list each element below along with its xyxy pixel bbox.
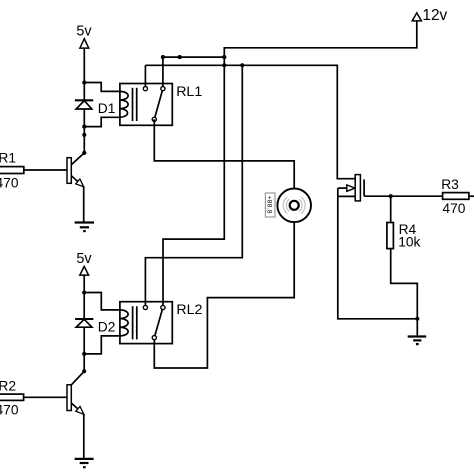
svg-text:12v: 12v — [422, 7, 447, 24]
relay RL2 box — [120, 302, 172, 344]
node collector junction — [82, 151, 86, 155]
svg-text:D1: D1 — [98, 101, 116, 116]
mosfet Q3 body stub arrow — [338, 187, 347, 189]
node coil-bypass junction — [82, 125, 86, 129]
wire net C branch down to RL2 NC — [145, 65, 242, 307]
diode D2 cathode bar — [75, 318, 93, 320]
relay RL1 switch blade — [154, 89, 163, 120]
wire RL1 NC contact up — [144, 65, 146, 88]
relay RL1 contact pin common — [152, 117, 156, 121]
wire net C to mosfet drain — [145, 65, 355, 178]
svg-text:5v: 5v — [76, 23, 92, 39]
svg-text:470: 470 — [442, 201, 465, 216]
node source-ground junction — [415, 317, 419, 321]
power 12V arrow — [412, 13, 421, 21]
transistor Q2 emitter — [71, 403, 84, 414]
svg-text:10k: 10k — [398, 234, 420, 249]
wire 5v to D2 cathode — [83, 275, 85, 319]
resistor R1 body — [0, 167, 24, 174]
wire RL2 coil bottom to rail — [84, 336, 120, 354]
node collector2 junction — [82, 369, 86, 373]
relay RL2 contact pin common — [152, 336, 156, 340]
mosfet Q3 gate electrode — [363, 179, 365, 196]
relay RL1 box — [120, 84, 172, 126]
node C1 — [222, 63, 226, 67]
svg-text:470: 470 — [0, 402, 19, 417]
relay RL2 contact pin left — [143, 305, 147, 309]
transistor Q2 base bar — [67, 385, 71, 411]
wire D1 anode down — [83, 109, 85, 153]
node gate divider — [389, 194, 393, 198]
resistor R3 body — [443, 193, 469, 200]
svg-text:5v: 5v — [76, 251, 92, 267]
svg-text:R2: R2 — [0, 378, 16, 393]
svg-text:R1: R1 — [0, 151, 16, 166]
node coil2-bypass junction — [82, 352, 86, 356]
relay RL1 core — [132, 88, 134, 121]
wire 5v to D1 cathode — [83, 48, 85, 100]
wire branch to RL2 coil top — [84, 293, 120, 310]
wire RL1 coil bottom to main rail — [84, 117, 120, 126]
relay RL2 core — [132, 306, 134, 339]
wire motor bottom to RL2 common — [154, 222, 294, 368]
wire R2 to Q2 base — [24, 396, 67, 398]
wire R4 to ground — [391, 249, 418, 337]
relay RL2 contact pin right — [161, 305, 165, 309]
transistor Q1 emitter arrow — [76, 179, 84, 187]
node junction at 5v2 branch — [82, 290, 86, 294]
mosfet Q3 channel bar — [355, 175, 360, 201]
power 5V top arrow — [80, 39, 89, 48]
relay RL2 switch blade — [154, 308, 163, 338]
relay RL1 contact pin left — [143, 87, 147, 91]
wire Q2 emitter to ground — [83, 414, 85, 459]
svg-text:RL1: RL1 — [176, 84, 202, 100]
relay RL1 contact pin right — [161, 87, 165, 91]
wire 12v rail down to RL2 NO — [163, 21, 417, 308]
transistor Q1 base bar — [67, 158, 71, 184]
wire node to R4 — [390, 196, 392, 222]
relay RL1 coil — [120, 91, 128, 117]
node B3 — [222, 55, 226, 59]
svg-text:470: 470 — [0, 175, 19, 190]
resistor R2 body — [0, 394, 24, 400]
mosfet Q3 source stub — [338, 195, 355, 197]
node junction at 5v branch — [82, 80, 86, 84]
wire R3 right — [469, 195, 474, 197]
node mid junction — [82, 133, 86, 137]
svg-text:D2: D2 — [98, 320, 116, 335]
relay RL2 coil — [120, 310, 128, 336]
motor M1 hub — [290, 201, 299, 210]
ground G2 — [75, 459, 94, 467]
transistor Q2 collector — [71, 371, 84, 385]
svg-text:RL2: RL2 — [176, 302, 202, 318]
wire mosfet source down — [338, 188, 418, 319]
diode D1 triangle — [76, 101, 92, 109]
motor M1 body — [277, 189, 311, 223]
wire Q1 emitter to ground — [83, 187, 85, 223]
wire RL1 common to motor top — [154, 119, 294, 188]
motor M1 inner arcs — [283, 197, 305, 214]
wire branch to RL1 coil top — [84, 83, 120, 92]
transistor Q1 emitter — [71, 176, 83, 187]
resistor R4 body — [387, 223, 394, 249]
ground G3 — [408, 337, 427, 345]
node C2 — [240, 63, 244, 67]
transistor Q2 emitter arrow — [76, 406, 84, 414]
power 5V bottom arrow — [80, 266, 89, 275]
transistor Q1 collector — [71, 153, 84, 165]
svg-text:R3: R3 — [441, 177, 459, 192]
diode D1 cathode bar — [75, 99, 93, 101]
node B2 — [178, 55, 182, 59]
node B1 — [161, 55, 165, 59]
wire R1 to Q1 base — [24, 169, 67, 171]
motor M1 display box — [265, 193, 275, 217]
diode D2 triangle — [76, 319, 92, 327]
wire RL1 NO contact up — [162, 57, 164, 89]
wire net B top — [163, 56, 224, 58]
wire gate to R3 — [364, 195, 443, 197]
svg-text:+88.8: +88.8 — [266, 196, 273, 214]
ground G1 — [75, 223, 94, 232]
wire D2 anode down — [83, 327, 85, 371]
